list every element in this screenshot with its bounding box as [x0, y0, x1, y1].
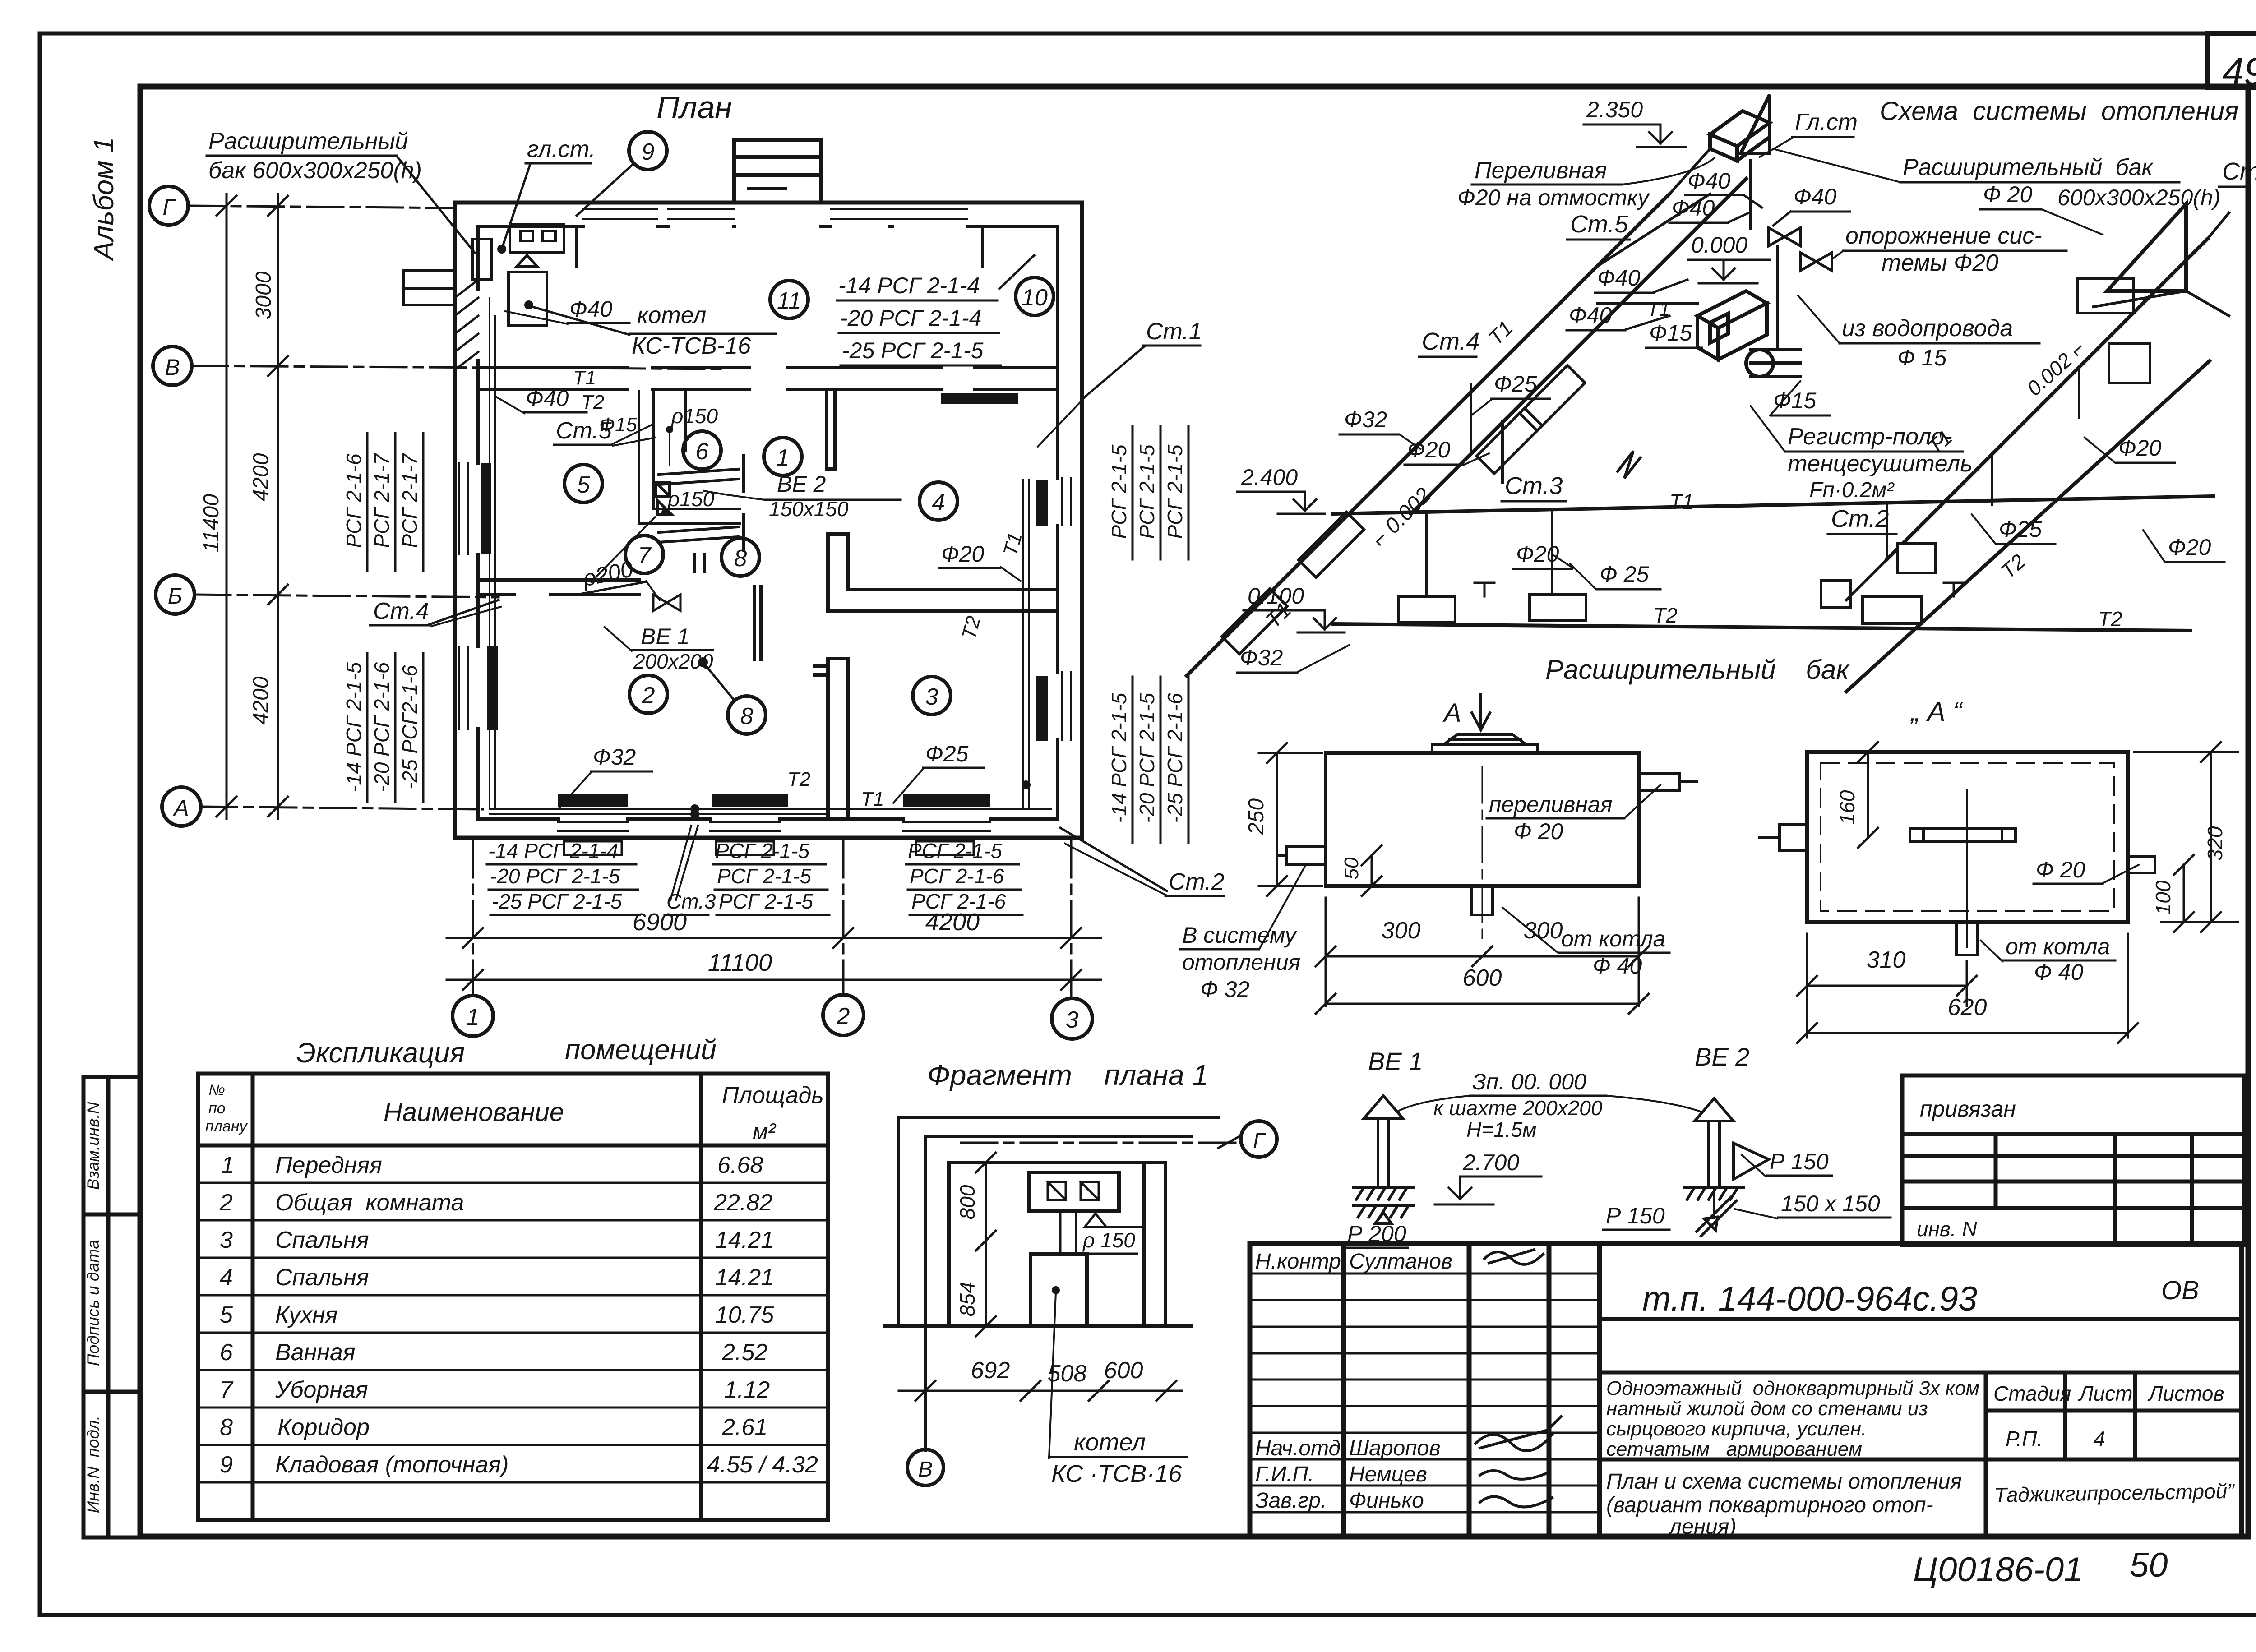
svg-text:Ф 20: Ф 20	[1514, 819, 1563, 844]
axis circle В	[153, 346, 192, 385]
svg-text:отопления: отопления	[1182, 950, 1300, 975]
tank left pipe	[1277, 846, 1326, 864]
svg-text:3: 3	[925, 684, 938, 710]
BE2 150x150	[1735, 1191, 1891, 1218]
dim 300 300	[1316, 898, 1649, 1006]
tank bottom pipe	[1472, 886, 1493, 915]
left dim line 3000/4200	[268, 194, 288, 819]
svg-text:-14 РСГ 2-1-4: -14 РСГ 2-1-4	[838, 273, 980, 298]
svg-text:11100: 11100	[708, 949, 772, 976]
svg-text:100: 100	[2151, 880, 2175, 915]
svg-text:600х300х250(h): 600х300х250(h)	[2057, 185, 2220, 210]
label F25 mid	[1570, 562, 1660, 589]
svg-text:Уборная: Уборная	[275, 1377, 368, 1403]
label T1 T2 right wall rotated	[957, 530, 1026, 641]
grid vert dashdot 1	[472, 841, 474, 995]
top wall windows	[583, 209, 967, 219]
explication header texts	[205, 1082, 248, 1135]
svg-text:котел: котел	[1074, 1429, 1146, 1456]
vent stub BE2	[695, 554, 705, 572]
svg-text:Г: Г	[1253, 1129, 1267, 1153]
boiler axon box	[1697, 291, 1767, 360]
svg-text:4: 4	[932, 489, 945, 516]
label gl.st scheme	[1760, 109, 1858, 157]
building title	[1606, 1377, 1979, 1460]
svg-text:В: В	[165, 355, 180, 380]
svg-text:помещений: помещений	[565, 1034, 717, 1066]
svg-text:2: 2	[219, 1190, 233, 1216]
svg-text:0.100: 0.100	[1248, 583, 1304, 609]
expansion tank label top-left	[207, 128, 475, 253]
label r150 lower	[591, 487, 715, 582]
label R200 plan	[580, 556, 660, 600]
vertical st5 riser	[1776, 246, 1779, 348]
room circle 1	[764, 438, 802, 475]
BE2 P150 left	[1603, 1203, 1669, 1230]
svg-text:2: 2	[642, 683, 655, 709]
svg-text:50: 50	[1341, 857, 1363, 879]
label F20 right diag	[2085, 435, 2175, 463]
fragment chimney box	[1029, 1172, 1119, 1211]
bottom wall inner line	[478, 817, 1058, 821]
plan outer walls	[455, 203, 1082, 838]
slanted radiator st4 low2	[1299, 512, 1364, 577]
svg-text:Переливная: Переливная	[1475, 157, 1607, 184]
svg-text:4200: 4200	[249, 676, 273, 724]
svg-text:-20 РСГ 2-1-5: -20 РСГ 2-1-5	[1135, 692, 1159, 823]
svg-text:Ф15: Ф15	[1649, 320, 1692, 346]
explication row lines	[198, 1183, 828, 1482]
svg-text:РСГ 2-1-5: РСГ 2-1-5	[719, 890, 814, 913]
scheme radiator box 2	[1530, 595, 1586, 621]
svg-text:Ф 32: Ф 32	[1200, 977, 1249, 1002]
svg-text:Подпись и дата: Подпись и дата	[84, 1240, 102, 1366]
svg-text:ρ150: ρ150	[670, 404, 718, 428]
svg-text:-25 РСГ 2-1-5: -25 РСГ 2-1-5	[842, 338, 984, 363]
svg-text:Ст.5: Ст.5	[1570, 211, 1628, 238]
label BE1 plan	[605, 624, 713, 673]
svg-text:Ф 20: Ф 20	[1983, 182, 2032, 207]
tank riser triangle	[1741, 95, 1770, 153]
svg-text:Кладовая (топочная): Кладовая (топочная)	[275, 1452, 509, 1478]
svg-text:2.350: 2.350	[1586, 97, 1643, 122]
rsg table room11	[838, 273, 984, 363]
svg-text:49: 49	[2222, 50, 2256, 93]
view A right pipe	[2128, 857, 2155, 873]
horizontal main T1 level2400	[1333, 496, 2213, 514]
fragment pipes boiler	[1060, 1211, 1144, 1254]
label BE2 plan	[704, 471, 901, 521]
label F20 right1	[2143, 530, 2224, 562]
svg-text:ОВ: ОВ	[2161, 1276, 2199, 1305]
svg-text:250: 250	[1244, 798, 1268, 835]
rsg rotated right lower	[1107, 692, 1187, 823]
svg-text:РСГ 2-1-7: РСГ 2-1-7	[398, 453, 421, 548]
svg-text:Т1: Т1	[1669, 490, 1694, 513]
svg-text:м²: м²	[753, 1119, 777, 1144]
axis line Г	[188, 206, 453, 208]
svg-text:Н.контр.: Н.контр.	[1255, 1250, 1347, 1274]
slanted radiator st4 low	[1222, 589, 1287, 654]
tank centerline	[1482, 767, 1483, 943]
svg-text:-25 РСГ 2-1-6: -25 РСГ 2-1-6	[1163, 692, 1187, 823]
svg-text:Расширительный бак: Расширительный бак	[1903, 154, 2154, 180]
fragment dim 854	[956, 1282, 996, 1336]
fragment circle B	[907, 1401, 943, 1486]
svg-text:сырцового кирпича, усилен.: сырцового кирпича, усилен.	[1606, 1418, 1867, 1440]
BE1 level 2.700	[1435, 1150, 1541, 1204]
slanted radiator st3 b	[1520, 365, 1585, 431]
towel rails in bath	[656, 456, 744, 550]
label F20 plan	[939, 541, 1021, 581]
explication table frame	[198, 1074, 828, 1520]
svg-text:Ц00186-01: Ц00186-01	[1913, 1550, 2083, 1589]
svg-text:сетчатым армированием: сетчатым армированием	[1606, 1438, 1862, 1460]
BE2 symbol	[1684, 1098, 1744, 1236]
svg-text:Ф40: Ф40	[1672, 195, 1715, 221]
svg-text:1.12: 1.12	[724, 1377, 770, 1403]
svg-text:Т1: Т1	[1647, 298, 1670, 320]
svg-text:Т1: Т1	[573, 367, 596, 389]
svg-text:ВЕ 1: ВЕ 1	[641, 624, 689, 649]
svg-text:натный жилой дом со стенами из: натный жилой дом со стенами из	[1606, 1398, 1928, 1420]
svg-text:Ф40: Ф40	[569, 296, 613, 322]
left wall inner line	[476, 226, 480, 819]
svg-text:Р.П.: Р.П.	[2006, 1427, 2043, 1450]
svg-text:Г.И.П.: Г.И.П.	[1255, 1463, 1314, 1486]
svg-text:Регистр-поло-: Регистр-поло-	[1788, 424, 1952, 450]
tank lid	[1432, 734, 1538, 753]
svg-text:(вариант поквартирного отоп-: (вариант поквартирного отоп-	[1606, 1493, 1933, 1517]
label St.2	[1060, 828, 1225, 896]
bottom wall windows	[558, 822, 990, 831]
room circle 7	[625, 535, 663, 573]
label perelivnaya tank	[1487, 785, 1660, 844]
svg-text:2: 2	[837, 1003, 850, 1029]
label gl.st plan	[497, 136, 596, 254]
svg-text:РСГ 2-1-5: РСГ 2-1-5	[908, 839, 1003, 863]
view A flange	[1910, 828, 2016, 842]
svg-text:2.52: 2.52	[721, 1339, 767, 1366]
svg-text:РСГ 2-1-5: РСГ 2-1-5	[1135, 444, 1159, 539]
label St.3 bottom	[665, 826, 716, 915]
svg-text:4200: 4200	[249, 453, 273, 501]
svg-text:Лист: Лист	[2078, 1382, 2132, 1405]
svg-text:-14 РСГ 2-1-5: -14 РСГ 2-1-5	[1107, 692, 1131, 823]
vertical stub between diagonals	[1471, 384, 1502, 483]
svg-text:ВЕ 1: ВЕ 1	[1368, 1047, 1423, 1075]
vertical drop F20 mid	[1551, 509, 1553, 595]
label St.3 scheme	[1502, 472, 1566, 501]
BE1 symbol	[1354, 1096, 1413, 1223]
dim 50	[1341, 845, 1382, 896]
partition C horizontal rooms4/3	[828, 590, 1058, 611]
dim 160	[1835, 742, 1878, 848]
dim 310	[1797, 934, 1977, 1038]
BE shaft label	[1396, 1069, 1702, 1141]
room circle 8a	[721, 538, 759, 576]
svg-text:Спальня: Спальня	[275, 1227, 369, 1253]
rsg mini table bottom right	[908, 839, 1006, 913]
grid vert dashdot 2	[842, 841, 845, 994]
svg-text:Фрагмент плана 1: Фрагмент плана 1	[927, 1059, 1208, 1091]
svg-text:3000: 3000	[252, 271, 276, 319]
view A crosshair	[1966, 789, 1968, 947]
svg-text:РСГ 2-1-5: РСГ 2-1-5	[717, 864, 812, 888]
axis line В	[192, 366, 722, 369]
svg-text:150 х 150: 150 х 150	[1781, 1191, 1880, 1216]
valve right	[1944, 583, 1964, 596]
title block left rows	[1250, 1274, 1600, 1512]
right wall windows	[1062, 478, 1071, 740]
svg-text:22.82: 22.82	[713, 1190, 772, 1216]
room circle 8b	[698, 657, 766, 734]
dim 250	[1244, 743, 1322, 896]
svg-text:Ф40: Ф40	[1597, 265, 1641, 291]
svg-text:Общая комната: Общая комната	[275, 1190, 464, 1216]
svg-text:Одноэтажный одноквартирный 3х: Одноэтажный одноквартирный 3х ком	[1606, 1377, 1979, 1399]
label St.1	[1038, 318, 1202, 447]
fragment axis G	[961, 1121, 1277, 1157]
svg-text:КС-ТСВ-16: КС-ТСВ-16	[632, 333, 751, 359]
svg-text:9: 9	[642, 139, 655, 165]
svg-text:11: 11	[777, 288, 801, 314]
fragment kotel label	[1049, 1292, 1187, 1487]
valves near tank	[1769, 228, 1832, 271]
dim 600	[1316, 965, 1649, 1014]
svg-text:от котла: от котла	[2006, 934, 2110, 959]
svg-text:5: 5	[577, 472, 591, 498]
svg-text:Ф40: Ф40	[1569, 303, 1612, 328]
wall stub below top wall left	[575, 226, 578, 267]
svg-text:8: 8	[734, 545, 747, 572]
svg-text:РСГ 2-1-5: РСГ 2-1-5	[1107, 444, 1131, 539]
svg-text:План: План	[656, 90, 732, 125]
svg-text:Инв.N подл.: Инв.N подл.	[84, 1416, 102, 1513]
svg-text:Передняя: Передняя	[275, 1152, 382, 1178]
svg-text:2.400: 2.400	[1241, 465, 1298, 490]
svg-text:310: 310	[1867, 947, 1906, 973]
page number box 49	[2208, 33, 2256, 93]
svg-text:Т1: Т1	[861, 788, 884, 810]
label R150 fragment	[1081, 1228, 1137, 1254]
radiator left upper	[481, 463, 491, 554]
svg-text:Т2: Т2	[1653, 604, 1678, 627]
svg-text:Расширительный бак: Расширительный бак	[1545, 655, 1850, 685]
svg-text:Г: Г	[162, 194, 176, 220]
porch canopy top-left	[404, 271, 455, 305]
grid vert dashdot 3	[1070, 841, 1073, 997]
svg-text:Расширительный: Расширительный	[208, 128, 408, 154]
svg-text:10.75: 10.75	[715, 1302, 774, 1328]
tank right pipe	[1639, 773, 1697, 790]
grid circle 2	[823, 995, 864, 1035]
label F15 scheme	[1646, 320, 1702, 348]
St.1 base lines	[2094, 291, 2229, 316]
axis line А	[201, 807, 483, 809]
svg-text:9: 9	[220, 1452, 233, 1478]
svg-text:Гл.ст: Гл.ст	[1795, 109, 1858, 135]
svg-text:800: 800	[956, 1185, 979, 1219]
svg-text:Ф40: Ф40	[1794, 184, 1837, 209]
svg-text:Экспликация: Экспликация	[296, 1038, 465, 1069]
label F20 upper	[1405, 437, 1489, 465]
dim 100	[2151, 855, 2194, 932]
svg-text:Финько: Финько	[1349, 1489, 1424, 1513]
radiator right wall lower	[1036, 676, 1048, 741]
pipe lines along bottom wall	[490, 298, 1051, 814]
svg-text:200х200: 200х200	[633, 650, 713, 673]
upper sub-diagonal to tank	[1597, 149, 1710, 266]
radiator left lower	[487, 646, 498, 730]
explication rows	[219, 1152, 818, 1478]
svg-text:привязан: привязан	[1920, 1096, 2016, 1121]
room circle 2	[629, 675, 667, 713]
svg-text:№: №	[208, 1082, 225, 1099]
view A rect	[1807, 752, 2128, 922]
svg-text:-20 РСГ 2-1-4: -20 РСГ 2-1-4	[840, 305, 981, 331]
view A left pipe	[1760, 825, 1807, 851]
svg-text:300: 300	[1382, 918, 1421, 944]
svg-text:620: 620	[1948, 994, 1987, 1020]
svg-text:Ф25: Ф25	[925, 741, 969, 766]
svg-text:Площадь: Площадь	[722, 1082, 824, 1108]
label St.1 scheme	[2219, 158, 2256, 187]
svg-text:Коридор: Коридор	[277, 1414, 370, 1440]
svg-text:План и схема системы отопления: План и схема системы отопления	[1606, 1470, 1962, 1494]
svg-text:Ф 25: Ф 25	[1600, 562, 1649, 587]
svg-text:50: 50	[2130, 1546, 2168, 1584]
BE2 flag	[1734, 1143, 1769, 1179]
svg-text:7: 7	[638, 543, 652, 569]
right diagonal lower	[1846, 361, 2210, 692]
svg-text:11400: 11400	[199, 494, 223, 553]
svg-text:из водопровода: из водопровода	[1842, 315, 2013, 341]
svg-text:РСГ 2-1-5: РСГ 2-1-5	[1163, 444, 1187, 539]
svg-text:Fп·0.2м²: Fп·0.2м²	[1809, 478, 1895, 502]
svg-text:РСГ 2-1-5: РСГ 2-1-5	[715, 839, 810, 863]
svg-text:Ф20: Ф20	[2118, 435, 2162, 461]
parallelogram slab right1	[2077, 278, 2134, 313]
grid circle 1	[453, 996, 493, 1036]
svg-text:4: 4	[220, 1264, 233, 1291]
svg-text:1: 1	[777, 445, 790, 471]
partition E rooms 8/3	[814, 659, 848, 819]
dim 620	[1797, 934, 2138, 1043]
svg-text:854: 854	[956, 1282, 979, 1317]
svg-text:-14 РСГ 2-1-4: -14 РСГ 2-1-4	[488, 839, 618, 863]
svg-text:-20 РСГ 2-1-5: -20 РСГ 2-1-5	[490, 864, 620, 888]
privyazan table	[1902, 1075, 2244, 1245]
svg-text:7: 7	[220, 1377, 234, 1403]
title block frame	[1250, 1243, 2242, 1537]
svg-text:Взам.инв.N: Взам.инв.N	[84, 1102, 102, 1190]
svg-text:Н=1.5м: Н=1.5м	[1466, 1118, 1537, 1141]
room circle 9	[577, 132, 667, 216]
svg-text:600: 600	[1104, 1357, 1143, 1384]
svg-text:1: 1	[467, 1004, 480, 1030]
svg-text:переливная: переливная	[1489, 792, 1612, 817]
svg-text:Зп. 00. 000: Зп. 00. 000	[1472, 1069, 1586, 1094]
svg-text:300: 300	[1524, 918, 1563, 944]
label r150 plan	[666, 404, 718, 465]
svg-text:Ф20: Ф20	[2168, 535, 2211, 560]
room circle 10	[1016, 277, 1054, 315]
level mark 0.100	[1244, 583, 1345, 632]
zigzag break on T1	[1618, 451, 1640, 478]
F20 drop from right upper diag	[1992, 366, 2079, 504]
svg-text:к шахте 200х200: к шахте 200х200	[1433, 1096, 1603, 1120]
svg-text:плану: плану	[205, 1118, 248, 1135]
label St.4	[370, 598, 501, 626]
svg-text:Ρ 150: Ρ 150	[1606, 1203, 1665, 1228]
partition D hall/room4	[827, 389, 848, 611]
svg-text:инв. N: инв. N	[1917, 1217, 1977, 1241]
BE2 P150 right	[1742, 1149, 1832, 1177]
tank front body	[1326, 753, 1639, 886]
svg-text:Ф40: Ф40	[1687, 168, 1731, 194]
svg-text:5: 5	[220, 1302, 233, 1328]
svg-text:Альбом 1: Альбом 1	[88, 137, 120, 262]
left stamp boxes	[83, 1077, 140, 1537]
view arrow A	[1442, 695, 1490, 730]
radiator right room4 top	[941, 393, 1018, 404]
svg-text:Б: Б	[168, 583, 183, 609]
svg-text:4.55 / 4.32: 4.55 / 4.32	[707, 1452, 818, 1478]
svg-text:Т2: Т2	[2098, 607, 2122, 631]
svg-text:3: 3	[220, 1227, 233, 1253]
radiator bottom 3	[903, 794, 990, 807]
svg-text:692: 692	[971, 1357, 1010, 1384]
svg-text:гл.ст.: гл.ст.	[527, 136, 596, 162]
left dim line 11400	[217, 194, 236, 819]
label F15 under coil	[1770, 381, 1830, 415]
partition corridor room2	[754, 586, 761, 660]
fragment bottom dims	[899, 1357, 1182, 1401]
pipe dots junction	[690, 780, 1031, 819]
svg-text:Ф 15: Ф 15	[1897, 345, 1946, 370]
svg-text:Ф15: Ф15	[599, 414, 637, 436]
svg-text:Ст.4: Ст.4	[373, 598, 429, 624]
label F20 mid-low	[1513, 541, 1573, 569]
label F32 plan	[559, 744, 652, 808]
svg-text:-14 РСГ 2-1-5: -14 РСГ 2-1-5	[342, 662, 365, 792]
svg-text:РСГ 2-1-7: РСГ 2-1-7	[370, 453, 393, 548]
axis circle А	[162, 787, 201, 826]
svg-text:Т2: Т2	[581, 391, 604, 413]
svg-text:Спальня: Спальня	[275, 1264, 369, 1291]
svg-text:котел: котел	[637, 302, 706, 328]
radiator bottom 1	[558, 794, 628, 807]
fragment walls	[884, 1163, 1191, 1326]
svg-text:темы Ф20: темы Ф20	[1882, 250, 1998, 276]
boiler label kotel	[524, 300, 776, 359]
svg-text:Ф32: Ф32	[593, 744, 636, 770]
svg-text:от котла: от котла	[1561, 926, 1665, 951]
label registr	[1751, 406, 1973, 502]
dim line 11100	[447, 970, 1101, 990]
svg-text:Ст.2: Ст.2	[1169, 869, 1225, 895]
svg-text:опорожнение сис-: опорожнение сис-	[1845, 223, 2042, 249]
radiator right wall upper	[1036, 480, 1048, 526]
valve symbol plan	[653, 595, 680, 611]
svg-text:160: 160	[1835, 790, 1859, 825]
plan pipe labels T1 T2 F15	[573, 367, 637, 436]
svg-text:ВЕ 2: ВЕ 2	[777, 471, 826, 497]
svg-text:Ст.3: Ст.3	[1505, 472, 1563, 499]
valve between	[1475, 583, 1494, 596]
svg-text:„ А “: „ А “	[1909, 697, 1963, 727]
